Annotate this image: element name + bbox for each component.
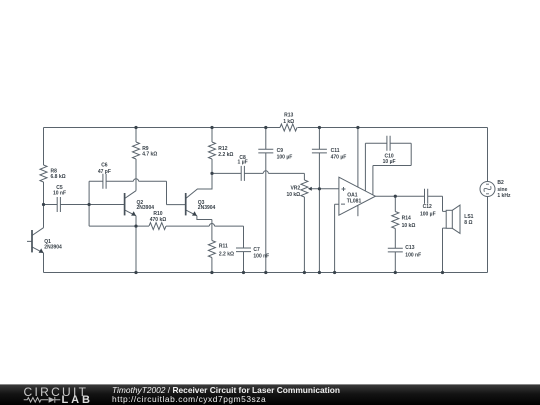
svg-text:1 µF: 1 µF (238, 159, 248, 165)
svg-text:TL081: TL081 (347, 199, 362, 205)
junction Q2 emitter ground (134, 271, 137, 274)
resistor R13 (280, 124, 297, 131)
wire top rail (44, 127, 488, 129)
transistor Q1 (27, 205, 44, 273)
node C5-out junction (89, 181, 136, 226)
wire R10 to C7 (215, 226, 244, 248)
potentiometer VR2 wiper arrow (308, 187, 312, 191)
svg-text:R13: R13 (284, 113, 293, 119)
svg-text:2N3904: 2N3904 (44, 245, 62, 251)
wire hop over C9 line (263, 171, 268, 174)
capacitor C11 (312, 128, 327, 273)
svg-text:C6: C6 (101, 162, 108, 168)
resistor R9 (135, 128, 137, 191)
junction R9 top rail (134, 126, 137, 129)
potentiometer VR2 (301, 180, 308, 197)
source B2 (480, 182, 495, 197)
junction R12/C8/Q3 collector node (210, 172, 213, 175)
svg-text:100 nF: 100 nF (405, 252, 421, 258)
wire hop over R9 line (133, 179, 138, 182)
svg-text:http://circuitlab.com/cyxd7pgm: http://circuitlab.com/cyxd7pgm53sza (112, 394, 266, 404)
capacitor C10 feedback loop (365, 136, 411, 195)
svg-text:2.2 kΩ: 2.2 kΩ (218, 152, 233, 158)
junction R8/C5/Q1 node (42, 203, 45, 206)
op-amp V+ pin (357, 128, 359, 188)
junction Q2 emitter R10 node (134, 225, 137, 228)
junction C7 ground (242, 271, 245, 274)
svg-text:2.2 kΩ: 2.2 kΩ (219, 252, 234, 258)
transistor Q3 (186, 173, 212, 240)
junction LS1 ground (441, 271, 444, 274)
junction op-amp output node (394, 195, 397, 198)
svg-text:470 kΩ: 470 kΩ (150, 217, 167, 223)
junction C13 ground (394, 271, 397, 274)
svg-text:100 nF: 100 nF (253, 254, 269, 260)
svg-text:C7: C7 (253, 247, 260, 253)
svg-text:100 µF: 100 µF (420, 212, 436, 218)
wire C8 to VR2 (268, 173, 304, 180)
wire hop over R11 line (209, 224, 214, 227)
junction C5 output node (88, 203, 91, 206)
resistor R12 (211, 128, 213, 174)
svg-text:B2: B2 (497, 180, 504, 186)
junction op-amp V+ top rail (356, 126, 359, 129)
wire right rail (487, 128, 489, 273)
wire inverting input to ground (335, 204, 339, 272)
junction C9 top rail (264, 126, 267, 129)
svg-text:10 nF: 10 nF (53, 190, 66, 196)
svg-text:C12: C12 (423, 204, 432, 210)
capacitor C6 (89, 174, 133, 189)
svg-text:R14: R14 (402, 215, 411, 221)
svg-text:1 kΩ: 1 kΩ (283, 119, 294, 125)
op-amp V- pin (357, 205, 359, 216)
junction R11 ground (210, 271, 213, 274)
capacitor C12 (425, 189, 447, 212)
svg-text:10 kΩ: 10 kΩ (402, 223, 416, 229)
transistor Q1 emitter arrow (39, 248, 44, 253)
svg-text:1 kHz: 1 kHz (497, 193, 511, 199)
transistor Q3 emitter arrow (192, 211, 197, 216)
op-amp OA1 (339, 177, 376, 215)
svg-text:10 µF: 10 µF (383, 159, 396, 165)
resistor R14 (394, 196, 396, 248)
svg-text:VR2: VR2 (290, 186, 300, 192)
svg-text:10 kΩ: 10 kΩ (286, 192, 300, 198)
resistor R8 (40, 165, 47, 182)
junction VR2 wiper C11 node (318, 187, 321, 190)
svg-text:LAB: LAB (62, 394, 93, 405)
junction VR2 ground (303, 271, 306, 274)
wire op-amp output (375, 195, 424, 197)
svg-text:2N3904: 2N3904 (137, 205, 155, 211)
junction C9 ground (264, 271, 267, 274)
svg-text:R12: R12 (218, 146, 227, 152)
transistor Q2 (125, 191, 136, 273)
svg-text:47 pF: 47 pF (98, 169, 111, 175)
capacitor C13 (388, 248, 403, 272)
capacitor C7 (236, 248, 251, 273)
junction R12 top rail (210, 126, 213, 129)
svg-text:6.8 kΩ: 6.8 kΩ (51, 174, 66, 180)
svg-text:2N3904: 2N3904 (198, 205, 216, 211)
resistor R10 (136, 225, 209, 227)
logo resistor zigzag and diode (24, 397, 61, 403)
junction C11 top rail (318, 126, 321, 129)
capacitor C9 (258, 128, 273, 273)
svg-text:4.7 kΩ: 4.7 kΩ (142, 151, 157, 157)
wire C6 to Q3 base (139, 181, 186, 204)
junction op-amp inverting input ground (333, 271, 336, 274)
svg-text:8 Ω: 8 Ω (464, 220, 472, 226)
wire bottom rail (44, 272, 488, 274)
wire left rail (43, 128, 45, 205)
svg-text:C9: C9 (277, 148, 284, 154)
svg-text:C11: C11 (331, 148, 340, 154)
junction C11 ground (318, 271, 321, 274)
speaker LS1 (446, 210, 452, 228)
svg-text:R11: R11 (219, 244, 228, 250)
transistor Q2 emitter arrow (131, 211, 136, 216)
capacitor C5 (44, 197, 90, 212)
resistor R11 (208, 241, 215, 258)
svg-text:OA1: OA1 (347, 192, 358, 198)
svg-text:C13: C13 (405, 245, 414, 251)
svg-text:100 µF: 100 µF (277, 154, 293, 160)
capacitor C8 (212, 166, 263, 181)
svg-text:470 µF: 470 µF (331, 154, 347, 160)
